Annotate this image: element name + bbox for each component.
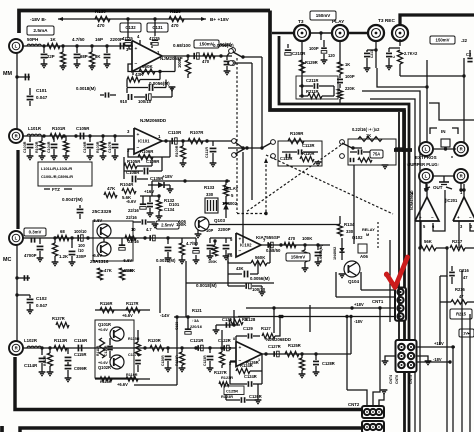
resistor R110R xyxy=(300,151,321,166)
label -18V r xyxy=(417,357,474,364)
junction xyxy=(166,236,169,239)
svg-text:+6.6V: +6.6V xyxy=(117,382,128,387)
resistor R124R xyxy=(230,354,262,374)
connector out R2 xyxy=(232,153,237,158)
wire v 399 xyxy=(398,112,400,340)
junction xyxy=(88,134,91,137)
svg-text:100P: 100P xyxy=(309,46,319,51)
wire fb IC101 xyxy=(128,141,170,157)
svg-text:150mV: 150mV xyxy=(436,38,450,43)
wire cnt gnd L xyxy=(382,356,396,365)
resistor R119R xyxy=(126,373,138,381)
label 100/10 xyxy=(74,229,87,234)
svg-text:↑3A: ↑3A xyxy=(192,318,199,323)
svg-text:47K: 47K xyxy=(107,186,116,191)
svg-text:R137R: R137R xyxy=(52,316,65,321)
switch sel top xyxy=(229,49,245,66)
svg-text:.22: .22 xyxy=(461,38,468,43)
wire bus hook xyxy=(394,148,412,152)
label 220K xyxy=(337,86,354,103)
capacitor C105R xyxy=(76,126,90,139)
svg-text:C123R: C123R xyxy=(203,355,207,366)
capacitor 0.0011(M) xyxy=(156,238,176,263)
svg-text:R120R: R120R xyxy=(148,338,161,343)
label B+ +18V xyxy=(201,17,230,23)
resistor 100K mid2 xyxy=(179,238,186,264)
connector out L xyxy=(227,48,235,56)
svg-text:+16V: +16V xyxy=(144,189,154,194)
resistor R217 xyxy=(450,239,474,251)
svg-text:/10: /10 xyxy=(78,248,84,253)
svg-text:L: L xyxy=(15,44,18,49)
svg-text:C105R: C105R xyxy=(76,126,90,131)
label 100K rr xyxy=(302,236,313,241)
capacitor 0.0056 fb xyxy=(228,261,270,281)
svg-text:MM: MM xyxy=(3,71,12,77)
svg-text:L: L xyxy=(425,147,428,152)
svg-text:C213: C213 xyxy=(370,50,374,58)
resistor f2 xyxy=(354,160,388,244)
svg-text:C116R: C116R xyxy=(74,338,88,343)
junction xyxy=(42,134,45,137)
jumper plug out xyxy=(433,176,454,185)
wire vert 243 xyxy=(242,152,244,243)
label R137R xyxy=(52,316,69,328)
capacitor 330P xyxy=(69,238,87,266)
svg-text:C114R: C114R xyxy=(24,363,38,368)
label JUMPER PLUG xyxy=(406,162,440,167)
svg-text:560K: 560K xyxy=(255,255,266,260)
svg-text:R117R: R117R xyxy=(126,301,139,306)
wire jack drops xyxy=(424,183,464,192)
capacitor 10P xyxy=(207,238,214,260)
junction xyxy=(186,54,189,57)
wire amp a pins xyxy=(421,190,445,248)
label Q104 xyxy=(348,279,360,284)
svg-text:CNT5: CNT5 xyxy=(409,375,413,384)
svg-text:Q102R: Q102R xyxy=(98,365,111,370)
label 4.7 xyxy=(146,227,155,241)
svg-text:EXTPROS: EXTPROS xyxy=(415,155,437,160)
op-amp IC201a xyxy=(411,184,439,221)
connector ext in L xyxy=(419,142,433,156)
svg-text:C125R: C125R xyxy=(226,389,238,394)
label Q102 xyxy=(352,235,363,240)
connector ext in R xyxy=(454,142,468,156)
capacitor C211R xyxy=(299,78,334,89)
svg-text:KIA7555SP: KIA7555SP xyxy=(256,235,280,240)
svg-text:C122R: C122R xyxy=(218,338,231,343)
wire head top feed xyxy=(272,32,294,34)
resistor 8K xyxy=(89,46,102,70)
label CNT4 xyxy=(389,375,393,384)
resistor 100K xyxy=(177,56,191,78)
svg-text:R111R: R111R xyxy=(96,345,100,356)
relay RELAY5 xyxy=(205,186,238,213)
svg-text:R102R: R102R xyxy=(35,141,39,153)
label OUT xyxy=(424,185,452,190)
capacitor C134 xyxy=(140,196,159,217)
label 2.5mV xyxy=(156,221,179,229)
label NJM2068DD b xyxy=(266,337,291,342)
svg-text:C101: C101 xyxy=(36,88,47,93)
svg-text:4700P: 4700P xyxy=(24,253,37,258)
svg-text:CNT1: CNT1 xyxy=(372,299,384,304)
svg-text:R123R: R123R xyxy=(221,394,233,399)
label 2200P xyxy=(110,37,123,42)
wire -14v xyxy=(174,315,250,318)
resistor R107R xyxy=(188,130,204,144)
label C125R box xyxy=(224,386,244,395)
wire mc r to opamp xyxy=(95,348,236,361)
svg-text:C113R: C113R xyxy=(302,143,315,148)
svg-text:L101R: L101R xyxy=(28,126,42,131)
wire stepped xyxy=(429,103,474,120)
label A06 2 xyxy=(360,254,369,259)
wire v453 xyxy=(452,347,454,432)
label 10P xyxy=(206,228,214,233)
label NJM2068P xyxy=(160,56,183,61)
junction xyxy=(75,44,78,47)
svg-text:R211R: R211R xyxy=(306,89,319,94)
wire rec out1 xyxy=(400,58,466,143)
label +18V c xyxy=(354,302,364,307)
capacitor C132 xyxy=(120,23,141,45)
capacitor C108R xyxy=(124,170,171,182)
svg-text:+: + xyxy=(135,47,138,52)
capacitor 0.0056(M) xyxy=(213,43,234,75)
wire MC L row xyxy=(23,46,238,238)
capacitor C115R xyxy=(65,348,87,366)
svg-text:-6.6V: -6.6V xyxy=(126,199,136,204)
svg-text:2.5mA: 2.5mA xyxy=(33,28,48,34)
junction xyxy=(260,146,263,149)
wire v462 xyxy=(461,270,463,432)
wire rec head to top rail xyxy=(400,15,474,26)
head PLAY xyxy=(332,25,348,41)
capacitor 22/16 xyxy=(119,215,159,250)
wire long v 420 xyxy=(419,248,421,410)
svg-text:Q101R: Q101R xyxy=(98,322,111,327)
wire C132 feed xyxy=(126,17,129,38)
resistor 1K h xyxy=(337,62,350,78)
label 1.5A 220/16 xyxy=(185,318,203,334)
svg-text:+18V: +18V xyxy=(162,174,173,179)
transistor Q MC-L2 xyxy=(97,242,111,256)
svg-text:68P: 68P xyxy=(80,54,88,59)
svg-text:R125R: R125R xyxy=(288,343,301,348)
svg-text:CNT4: CNT4 xyxy=(389,375,393,384)
wire MC L to R xyxy=(16,245,18,341)
wire head link play-rec xyxy=(348,32,369,34)
switch contact 1 xyxy=(262,140,275,148)
svg-text:C104R: C104R xyxy=(47,141,51,153)
junction xyxy=(180,346,183,349)
svg-text:150mV: 150mV xyxy=(199,42,214,47)
svg-text:8: 8 xyxy=(233,337,235,341)
svg-text:100K: 100K xyxy=(176,222,187,227)
svg-text:560K: 560K xyxy=(142,64,154,69)
svg-text:C100L/R,C899L/R: C100L/R,C899L/R xyxy=(41,174,73,179)
resistor R115R xyxy=(128,330,141,356)
svg-text:1N4002: 1N4002 xyxy=(222,201,238,206)
junction xyxy=(158,70,161,73)
junction xyxy=(129,236,132,239)
svg-text:2.7K×2: 2.7K×2 xyxy=(404,51,418,56)
label 2.5mA xyxy=(27,26,54,35)
resistor R109R xyxy=(288,131,304,144)
svg-text:C103R: C103R xyxy=(23,141,27,153)
resistor 100K rr xyxy=(302,245,309,272)
svg-text:L102R: L102R xyxy=(24,338,38,343)
label C121R b xyxy=(190,338,204,351)
wire top rail xyxy=(64,18,206,20)
resistor R125R xyxy=(285,343,301,357)
wire v 177 xyxy=(176,318,178,348)
wire thin corner2 xyxy=(370,99,415,432)
wire center thick bus A xyxy=(403,110,406,432)
connector CNT2 row2 xyxy=(362,421,384,432)
svg-text:+0.6V: +0.6V xyxy=(98,361,108,365)
svg-text:L: L xyxy=(15,236,18,241)
junction xyxy=(164,139,167,142)
svg-text:NJM2068DD: NJM2068DD xyxy=(140,118,167,123)
op-amp IC102 xyxy=(230,233,266,258)
svg-text:C134: C134 xyxy=(164,207,175,212)
label C2 r xyxy=(466,50,473,62)
box 25A1316 pair xyxy=(93,221,133,261)
wire v 222 xyxy=(221,330,223,346)
svg-text:0.68/100: 0.68/100 xyxy=(173,43,191,48)
dashed link top xyxy=(236,58,238,148)
svg-text:T3 REC: T3 REC xyxy=(378,18,395,24)
resistor R134 330 xyxy=(337,216,355,236)
svg-text:B+ +18V: B+ +18V xyxy=(210,17,230,23)
wire drop 272 xyxy=(273,308,275,333)
annotation red checkmark xyxy=(384,257,408,288)
dashed X 1 xyxy=(266,155,393,214)
svg-text:IN: IN xyxy=(441,129,446,134)
label 150mV r xyxy=(286,253,310,261)
capacitor C102 xyxy=(15,275,47,313)
wire q103 row xyxy=(120,237,238,239)
svg-text:10P: 10P xyxy=(206,228,214,233)
op-amp ICb xyxy=(229,342,262,367)
svg-text:1N4002: 1N4002 xyxy=(333,247,337,260)
head T3 rec b xyxy=(392,25,408,41)
dashed v arrow xyxy=(264,158,268,212)
svg-text:C107R: C107R xyxy=(108,141,112,153)
resistor 43K xyxy=(127,72,160,88)
svg-text:C132: C132 xyxy=(125,25,136,30)
svg-text:C124R: C124R xyxy=(244,374,257,379)
wire head shield box border xyxy=(279,36,409,432)
svg-text:OUT: OUT xyxy=(433,185,443,190)
junction xyxy=(241,146,244,149)
svg-text:R103R: R103R xyxy=(96,141,100,153)
connector jack MC L xyxy=(9,231,23,245)
wire bottom border second xyxy=(20,428,361,432)
capacitor C107R xyxy=(108,136,118,160)
wire switch row xyxy=(228,142,262,154)
svg-text:2.5mV: 2.5mV xyxy=(161,223,174,228)
label 22/16 d xyxy=(128,196,150,213)
resistor R117R xyxy=(126,301,140,313)
svg-text:25C3329: 25C3329 xyxy=(92,209,112,215)
junction xyxy=(70,236,73,239)
wire left border mid thick xyxy=(16,150,19,229)
label -6.6V a xyxy=(92,218,102,223)
wire rec downs xyxy=(376,39,400,68)
svg-text:R216: R216 xyxy=(455,287,466,292)
svg-text:C211R: C211R xyxy=(306,78,319,83)
label C113R xyxy=(282,143,318,155)
capacitor C120R xyxy=(161,348,171,372)
connector jack MC R xyxy=(9,341,23,355)
junction xyxy=(113,134,116,137)
wire vert 310 xyxy=(309,305,311,332)
svg-text:C128R: C128R xyxy=(322,361,335,366)
svg-text:330: 330 xyxy=(206,192,214,197)
svg-text:43K: 43K xyxy=(236,266,244,271)
wire q104 down xyxy=(336,272,396,297)
box filter R xyxy=(348,139,396,165)
label 150mV h xyxy=(310,11,336,20)
resistor R104R 5.6K xyxy=(120,179,136,200)
svg-text:2200P: 2200P xyxy=(218,227,231,232)
label C129 xyxy=(233,326,260,342)
wire play down xyxy=(339,41,341,64)
svg-text:R134: R134 xyxy=(344,222,355,227)
svg-text:R104R: R104R xyxy=(120,182,134,187)
label 100P h xyxy=(309,40,336,64)
label C122R b xyxy=(218,338,231,351)
wire main bus right vertical xyxy=(270,11,404,153)
label 56(M) xyxy=(220,42,232,47)
svg-text:↑JUMPER PLUG↑: ↑JUMPER PLUG↑ xyxy=(406,162,440,167)
svg-text:0.0018(M): 0.0018(M) xyxy=(196,283,217,288)
label C133 xyxy=(134,318,179,385)
inductor 50PH xyxy=(27,37,41,46)
svg-text:150mV: 150mV xyxy=(291,255,306,260)
label R215 xyxy=(450,309,472,319)
label 16P xyxy=(95,37,103,42)
label +16V xyxy=(140,189,161,198)
label T3 xyxy=(298,19,304,25)
label R122R xyxy=(221,394,233,400)
svg-text:4.7/50: 4.7/50 xyxy=(72,37,85,42)
svg-text:L101L/R,L102L/R: L101L/R,L102L/R xyxy=(41,166,72,171)
resistor R216 xyxy=(440,287,474,304)
svg-text:220/16: 220/16 xyxy=(190,324,203,329)
resistor 10 xyxy=(125,227,136,241)
svg-text:CNT2: CNT2 xyxy=(348,402,360,407)
capacitor f1 xyxy=(350,149,372,162)
box q101r xyxy=(95,320,134,378)
junction xyxy=(143,346,146,349)
label +6.6V q2 xyxy=(117,382,128,387)
svg-text:R116R: R116R xyxy=(100,301,113,306)
svg-text:R129R: R129R xyxy=(305,60,318,65)
label EXTPROS xyxy=(409,155,453,160)
label 75A xyxy=(370,150,383,158)
label 25C3329 xyxy=(92,209,112,215)
svg-text:R112R: R112R xyxy=(43,355,47,366)
svg-text:150mV: 150mV xyxy=(316,13,331,18)
svg-text:R127: R127 xyxy=(261,326,272,331)
label -6.6V c xyxy=(122,258,132,263)
svg-text:Q103: Q103 xyxy=(214,218,226,223)
inductor L102R xyxy=(24,338,41,348)
svg-text:C121R: C121R xyxy=(190,338,204,343)
capacitor C126R xyxy=(226,384,262,404)
svg-text:R106R: R106R xyxy=(140,149,154,154)
resistor R116R xyxy=(100,301,114,313)
wire head mid xyxy=(310,31,332,34)
connector jack MM L xyxy=(9,39,23,53)
label 47K xyxy=(104,186,117,198)
label +18V r xyxy=(417,341,474,349)
wire trans join xyxy=(103,238,105,242)
junction xyxy=(105,44,108,47)
svg-text:0.0056(M): 0.0056(M) xyxy=(250,276,270,281)
junction xyxy=(48,346,51,349)
svg-text:100K: 100K xyxy=(177,58,182,68)
head T3 rec a xyxy=(368,25,384,41)
svg-text:R129: R129 xyxy=(170,9,181,14)
resistor R111R xyxy=(96,338,105,358)
svg-text:MC: MC xyxy=(3,257,11,263)
capacitor 2200P input xyxy=(117,43,132,50)
label CNT1 xyxy=(372,299,384,304)
junction xyxy=(42,44,45,47)
transistor Q104 xyxy=(344,261,360,277)
head T3 play xyxy=(294,25,310,41)
wire ic102 out xyxy=(261,244,330,246)
label 0.0018(M) top xyxy=(195,91,197,93)
label Q103 xyxy=(214,218,226,223)
junction xyxy=(314,352,317,355)
wire amp b pins xyxy=(459,221,474,248)
svg-text:+: + xyxy=(137,133,140,138)
wire after switch xyxy=(354,147,404,149)
svg-text:C115R: C115R xyxy=(74,352,87,357)
junction xyxy=(303,243,306,246)
label 0.22/16 x2 xyxy=(352,127,380,132)
label 47K b xyxy=(97,268,112,280)
label 0.0047(M) xyxy=(62,197,83,202)
svg-text:50PH: 50PH xyxy=(27,37,38,42)
capacitor 2200P 2 xyxy=(223,238,230,260)
box r211 xyxy=(296,76,338,99)
svg-text:C129: C129 xyxy=(243,326,254,331)
label C127R xyxy=(268,344,281,357)
wire sel xyxy=(244,57,262,148)
svg-text:100P: 100P xyxy=(345,74,355,79)
label C216 xyxy=(449,266,469,284)
capacitor C110R xyxy=(172,138,177,144)
svg-text:100/10: 100/10 xyxy=(74,229,87,234)
wire cnt gnd R xyxy=(417,356,431,365)
svg-text:IC102: IC102 xyxy=(240,243,252,248)
svg-text:47K: 47K xyxy=(104,268,113,273)
resistor R100R xyxy=(175,141,186,167)
svg-text:25A1316: 25A1316 xyxy=(90,259,109,264)
svg-text:1.2K: 1.2K xyxy=(59,254,69,259)
junction xyxy=(300,352,303,355)
label 150mV xyxy=(194,40,219,48)
svg-text:0.22/16(↑+↑)x2: 0.22/16(↑+↑)x2 xyxy=(352,127,380,132)
